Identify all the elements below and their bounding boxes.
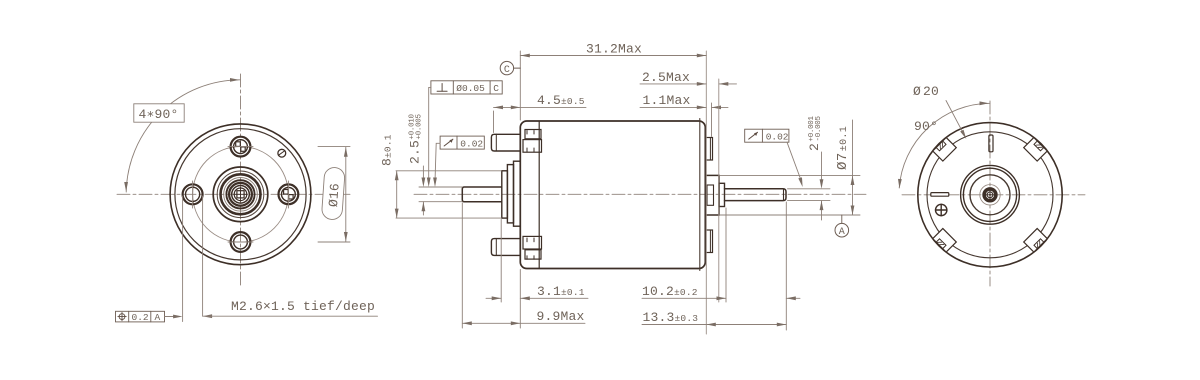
runout flag right: [745, 129, 805, 187]
svg-text:C: C: [504, 65, 510, 76]
dia7 extension lines: [720, 174, 861, 176]
svg-text:8±0.1: 8±0.1: [380, 134, 395, 166]
4.5 dimension: [494, 93, 587, 133]
2 +0.001/-0.005 dimension: [807, 115, 823, 220]
runout flag left: [433, 136, 484, 187]
svg-text:-0.005: -0.005: [815, 115, 823, 141]
right shaft: [725, 189, 787, 201]
svg-text:4.5±0.5: 4.5±0.5: [537, 93, 585, 108]
svg-text:4∗90°: 4∗90°: [139, 107, 179, 122]
pin hole upper right: [278, 149, 286, 157]
dia7 dimension: [835, 120, 854, 215]
centerlines: [902, 194, 1085, 196]
GD&T position box: [116, 311, 183, 323]
svg-text:0.2: 0.2: [132, 312, 149, 323]
outer body circle: [170, 124, 311, 265]
2.5Max dimension: [640, 70, 737, 86]
center square and cross: [237, 191, 244, 198]
svg-text:2: 2: [807, 143, 822, 151]
31.2Max dimension: [520, 42, 706, 335]
svg-text:3.1±0.1: 3.1±0.1: [537, 284, 585, 299]
terminal bottom tab: [491, 239, 520, 256]
svg-text:13.3±0.3: 13.3±0.3: [643, 310, 699, 325]
terminal top tab: [491, 134, 520, 151]
hole right (screw): [279, 181, 299, 208]
dia20 label: [913, 84, 968, 140]
dia16 stadium label: [321, 167, 345, 220]
9.9Max dimension: [462, 203, 585, 328]
GD&T perpendicularity box: [427, 81, 502, 187]
center boss rings: [213, 167, 268, 222]
8±0.1 dimension: [380, 134, 502, 218]
2.5 shaft dia dimension: [408, 113, 463, 215]
hole bottom (screw): [228, 232, 253, 252]
center rings: [961, 165, 1020, 224]
M2.6 leader and text: [203, 299, 378, 318]
svg-text:0.02: 0.02: [766, 131, 789, 142]
svg-text:A: A: [839, 227, 845, 238]
datum A: [835, 215, 849, 238]
terminal bottom clips: [523, 236, 542, 259]
90deg arc: [899, 103, 990, 188]
crimp notch top-left: [933, 137, 957, 161]
svg-text:C: C: [493, 83, 499, 94]
13.3 dimension: [642, 310, 786, 326]
hole left (M2.6 thread): [183, 181, 203, 208]
right tab bottom: [705, 230, 712, 253]
centerline: [414, 193, 866, 195]
tangent extension lines of left hole: [182, 196, 184, 322]
screw cross: [936, 204, 947, 215]
inner face circle: [175, 129, 306, 260]
svg-text:Ø20: Ø20: [913, 84, 939, 99]
10.2 dimension: [642, 202, 800, 330]
svg-text:Ø16: Ø16: [326, 183, 343, 208]
bolt circle: [193, 147, 289, 243]
svg-text:10.2±0.2: 10.2±0.2: [642, 284, 698, 299]
rear endcap line: [699, 119, 701, 271]
datum C: [500, 61, 520, 75]
inner circle: [927, 132, 1053, 258]
motor body: [520, 121, 705, 269]
outer circle: [918, 123, 1062, 267]
svg-text:90°: 90°: [914, 119, 938, 134]
svg-text:2.5Max: 2.5Max: [642, 70, 690, 85]
svg-text:0.02: 0.02: [460, 138, 483, 149]
svg-text:9.9Max: 9.9Max: [537, 309, 585, 324]
top slot: [989, 135, 993, 152]
extension line x=718.8: [718, 79, 720, 302]
left boss step2: [507, 165, 513, 223]
1.1Max dimension: [640, 93, 728, 137]
svg-text:31.2Max: 31.2Max: [586, 42, 642, 57]
dia16 dimension line: [345, 147, 347, 241]
svg-text:A: A: [155, 312, 161, 323]
hole top (screw): [228, 137, 253, 157]
crimp notch bottom-left: [933, 229, 957, 253]
svg-text:2.5: 2.5: [408, 140, 423, 164]
4*90 label box: [134, 104, 184, 122]
3.1 dimension: [486, 220, 588, 329]
crimp notch bottom-right: [1024, 229, 1048, 253]
right shaft extension lines: [788, 188, 831, 190]
terminal top clips: [523, 130, 542, 153]
svg-text:1.1Max: 1.1Max: [643, 93, 691, 108]
front endcap line: [538, 121, 540, 268]
crimp notch top-right: [1024, 137, 1048, 161]
svg-text:+0.005: +0.005: [415, 113, 423, 139]
svg-text:Ø0.05: Ø0.05: [456, 83, 485, 94]
4*90 dimension arc: [126, 80, 240, 192]
right tab top: [705, 138, 712, 161]
svg-text:M2.6×1.5 tief/deep: M2.6×1.5 tief/deep: [231, 299, 375, 314]
left shaft: [462, 187, 502, 202]
left boss step3: [514, 161, 521, 226]
left slot: [931, 193, 949, 197]
right boss: [705, 175, 719, 215]
centerline horizontal: [117, 193, 352, 195]
centerline vertical: [240, 74, 242, 288]
left boss collar dia8: [502, 171, 508, 218]
